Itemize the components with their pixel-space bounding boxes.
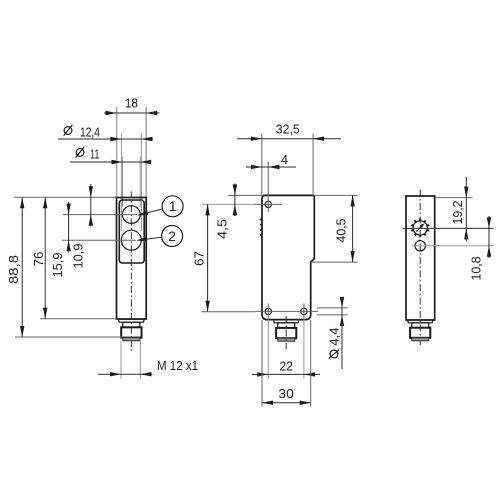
dimension 88,8	[6, 197, 24, 337]
svg-text:M 12 x1: M 12 x1	[157, 358, 198, 373]
middle view connector centerline	[285, 316, 287, 349]
dimension 15,9	[50, 202, 71, 278]
svg-text:4,5: 4,5	[215, 219, 230, 239]
svg-text:4,4: 4,4	[327, 328, 342, 346]
lens circle 1 (upper, d11)	[123, 206, 141, 224]
dimension diameter 4,4	[327, 297, 345, 369]
right view centerline	[419, 190, 421, 346]
dimension 40,5	[334, 195, 355, 262]
extension lines: screw centers extended down for 22	[268, 319, 304, 378]
left view centerline	[130, 192, 132, 353]
extension line: body top extended left	[14, 196, 117, 198]
extension lines: lens 2 diameter 12.4 extended up	[121, 134, 141, 232]
extension line: lens1 center extended left	[63, 214, 137, 216]
LED indicator	[415, 241, 425, 251]
bottom-right screw hole	[301, 304, 307, 320]
extension line: bottom screw center extended left	[201, 311, 255, 313]
dimension 10,8	[469, 216, 492, 281]
extension line: LED center extended right	[412, 245, 494, 247]
svg-text:15,9: 15,9	[50, 253, 65, 278]
left view connector flange	[118, 319, 144, 322]
dimension 76	[31, 197, 47, 318]
extension line: body top extended right	[435, 197, 473, 199]
dimension 30	[262, 386, 311, 405]
bottom-left screw hole	[265, 304, 271, 320]
extension line: screw hole vertical extended up for 4	[267, 162, 269, 197]
dimension diameter 11	[70, 147, 151, 165]
lens circle 2 (lower, d12.4)	[121, 230, 141, 250]
extension lines: screw hole tangents extended right for diameter 4,4	[317, 308, 348, 315]
dimension 10,9	[71, 184, 94, 269]
extension lines: body edges extended up for 32,5	[262, 134, 313, 196]
extension line: step extended right	[311, 261, 358, 263]
potentiometer gear	[411, 219, 429, 238]
svg-text:12,4: 12,4	[80, 125, 100, 140]
screw holes center line horizontal	[256, 310, 319, 312]
svg-text:11: 11	[90, 147, 100, 162]
middle view lens slit ticks on left edge	[260, 220, 263, 235]
extension lines: lens 1 diameter 11 extended up	[123, 157, 141, 208]
extension lines: body edges extended down for 30	[262, 320, 311, 407]
dimension 4	[246, 152, 296, 169]
extension line: body top extended left	[228, 194, 262, 196]
dimension 32,5	[237, 122, 341, 141]
svg-text:76: 76	[31, 252, 46, 267]
dimension M 12 x1	[98, 358, 198, 376]
dimension 4,5	[215, 184, 238, 240]
extension line: lens2 center extended left	[62, 239, 136, 241]
extension lines: body edges extended up for dim 18	[117, 107, 147, 197]
extension line: body top extended right	[314, 194, 357, 196]
dimension 22	[252, 359, 320, 377]
middle view connector thread	[278, 338, 295, 341]
svg-text:30: 30	[278, 386, 294, 401]
svg-text:1: 1	[169, 198, 177, 214]
right view connector flange	[408, 320, 434, 323]
dimension 67	[192, 204, 210, 311]
right view connector neck	[412, 323, 429, 328]
middle view body outline with step	[262, 195, 314, 319]
svg-text:18: 18	[125, 96, 138, 111]
extension line: top screw center extended far left	[202, 203, 254, 205]
extension line: thread start extended left	[15, 336, 123, 338]
balloon 1	[137, 196, 183, 217]
svg-text:32,5: 32,5	[276, 122, 300, 137]
balloon 2	[136, 226, 183, 247]
middle view connector nut	[276, 328, 296, 338]
svg-text:67: 67	[192, 251, 207, 266]
extension line: potentiometer center extended right	[403, 227, 494, 229]
svg-text:4: 4	[281, 152, 288, 167]
left view connector thread	[123, 338, 140, 341]
extension lines: connector thread extended down	[121, 341, 140, 379]
svg-text:22: 22	[279, 359, 293, 374]
svg-text:88,8: 88,8	[6, 255, 21, 284]
svg-text:40,5: 40,5	[334, 219, 349, 243]
dimension 19,2	[450, 177, 469, 241]
left view connector neck	[123, 322, 140, 327]
left view body outline	[117, 198, 147, 320]
left view lens window frame	[119, 200, 144, 263]
top-left screw hole	[254, 197, 282, 213]
dimension diameter 12,4	[58, 125, 153, 142]
right view body outline	[406, 196, 435, 320]
svg-text:10,9: 10,9	[71, 244, 86, 269]
right view connector nut	[410, 328, 430, 338]
left view connector nut M12	[121, 327, 141, 337]
middle view connector neck	[278, 323, 295, 328]
svg-text:10,8: 10,8	[469, 257, 484, 281]
extension line: body bottom extended left	[40, 318, 117, 320]
svg-text:19,2: 19,2	[450, 201, 465, 225]
dimension 18	[104, 96, 160, 116]
right view connector thread	[412, 338, 429, 341]
middle view connector flange	[273, 320, 299, 323]
svg-text:2: 2	[168, 228, 176, 244]
